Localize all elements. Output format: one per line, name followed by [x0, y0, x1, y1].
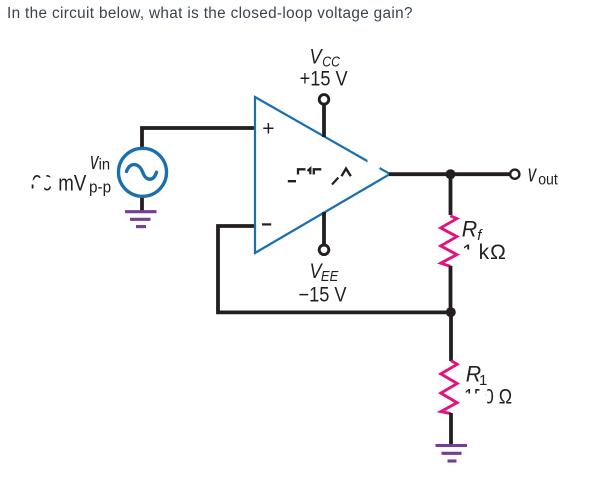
op-amp part number (masked fragments): [288, 169, 351, 185]
svg-text:in: in: [99, 156, 110, 174]
resistor Rf: [441, 216, 457, 266]
label vin: [90, 148, 100, 175]
node feedback junction: [446, 307, 456, 317]
wire R1 bottom: [449, 413, 453, 445]
label -15 V: [299, 283, 348, 307]
label 60 mVp-p (masked): [32, 172, 53, 196]
label 1 kOhm (masked): [462, 241, 474, 264]
svg-text:R: R: [462, 216, 477, 241]
svg-text:+15 V: +15 V: [300, 68, 349, 92]
svg-text:+: +: [262, 117, 274, 140]
wire feedback: [218, 226, 452, 312]
label 150 Ohm (masked): [464, 385, 512, 409]
wire Rf top: [449, 174, 453, 215]
svg-text:mV: mV: [58, 172, 86, 196]
Vcc terminal: [319, 95, 329, 105]
Vcc stem: [322, 103, 326, 137]
svg-text:kΩ: kΩ: [479, 241, 507, 264]
resistor R1: [441, 361, 457, 414]
svg-text:out: out: [538, 170, 558, 188]
svg-text:v: v: [528, 161, 538, 188]
label VEE: [310, 260, 324, 284]
wire R1 top: [449, 311, 453, 361]
label +15 V: [300, 68, 349, 92]
Vout terminal: [510, 170, 519, 179]
voltage source VS: [119, 148, 167, 196]
VEE terminal: [319, 245, 329, 255]
wire source to ground: [140, 195, 144, 211]
svg-text:−15 V: −15 V: [299, 283, 348, 307]
node output junction: [446, 169, 456, 179]
ground (R1): [436, 446, 468, 462]
op-amp U1: [255, 97, 390, 253]
label R1: [466, 361, 481, 386]
svg-text:EE: EE: [321, 267, 339, 284]
white mask gap over top edge: [368, 155, 380, 169]
ground (input): [125, 212, 157, 227]
svg-text:V: V: [310, 45, 324, 69]
label Vcc: [310, 45, 324, 69]
wire output: [389, 172, 511, 176]
label vout: [528, 161, 538, 188]
wire Rf bottom: [449, 266, 453, 313]
wire input top: [142, 128, 257, 150]
svg-text:p-p: p-p: [89, 178, 111, 197]
label Rf: [462, 216, 477, 241]
VEE stem: [322, 212, 326, 246]
- input marker: [262, 223, 271, 225]
